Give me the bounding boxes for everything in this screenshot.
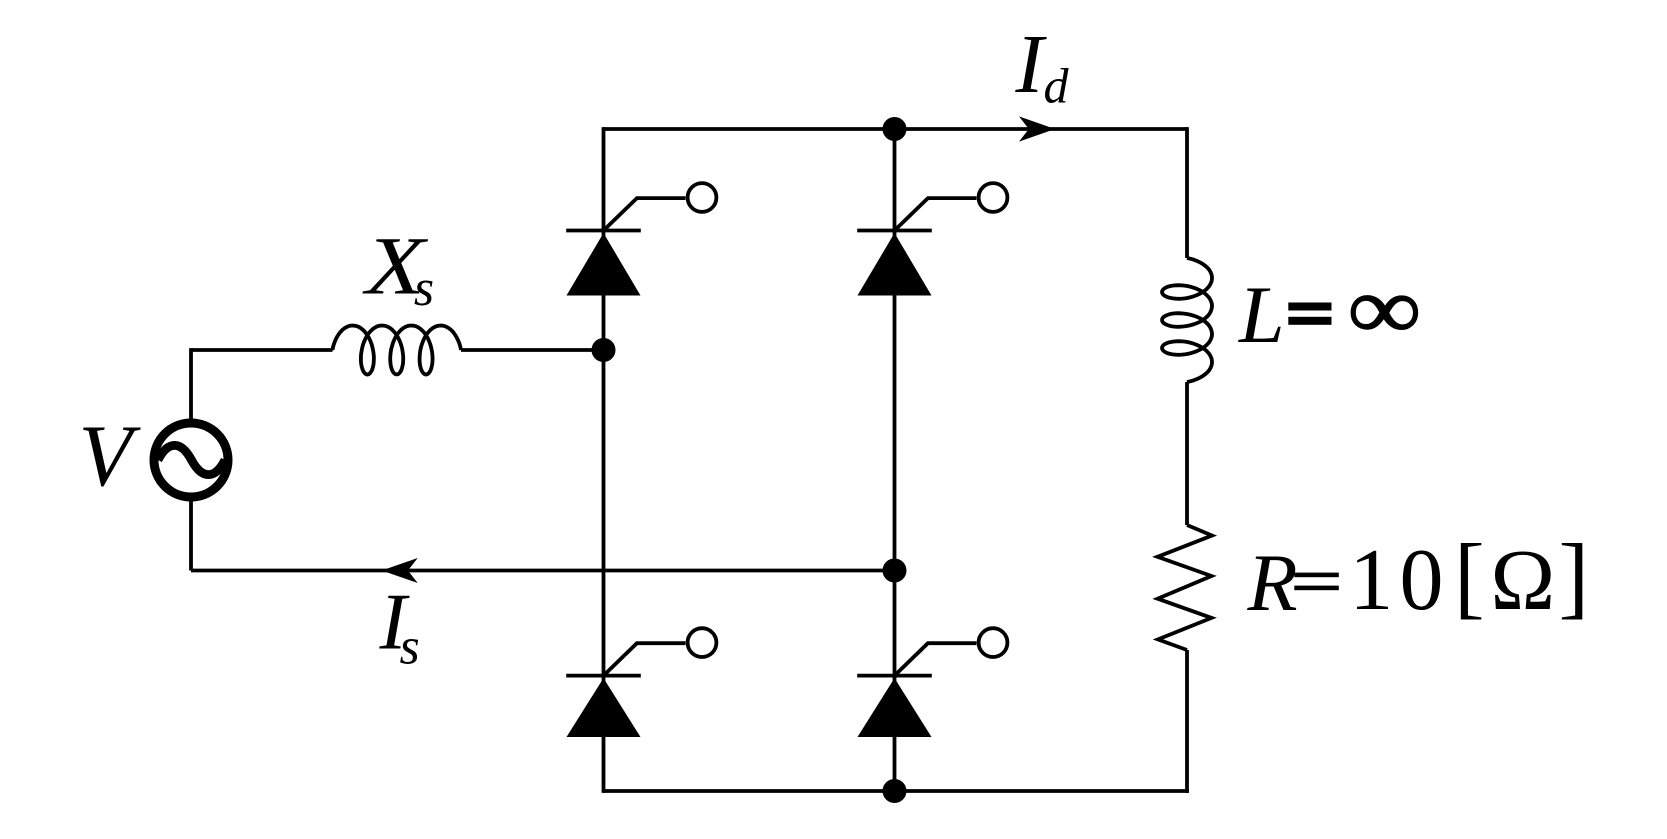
thyristor T3 gate terminal circle	[688, 628, 717, 657]
svg-text:Ω: Ω	[1491, 531, 1556, 628]
svg-text:[: [	[1454, 525, 1485, 627]
thyristor T2 triangle	[858, 233, 932, 296]
svg-text:s: s	[414, 260, 434, 317]
wire AC top (source to Xs)	[191, 348, 333, 352]
wire top rail	[604, 127, 1188, 131]
thyristor T4 gate terminal circle	[979, 628, 1008, 657]
svg-text:L: L	[1238, 269, 1285, 360]
svg-text:∞: ∞	[1347, 259, 1421, 357]
wire Xs to bridge node	[461, 348, 604, 352]
thyristor T4 gate lead	[895, 643, 977, 675]
junction node AC to left leg	[592, 338, 616, 362]
thyristor T1 cathode bar	[566, 229, 641, 233]
wire source lower lead	[189, 501, 193, 571]
equals sign of R label	[1294, 573, 1339, 578]
svg-text:V: V	[79, 408, 142, 505]
junction node bottom rail right leg	[883, 779, 907, 803]
equals sign of L label	[1288, 303, 1331, 311]
thyristor T3 gate lead	[604, 643, 686, 675]
arrow Is on return wire	[382, 558, 418, 583]
wire bottom return Is	[191, 569, 895, 573]
AC source V circle	[154, 423, 228, 497]
svg-text:R: R	[1247, 537, 1298, 628]
thyristor T3 cathode bar	[566, 674, 641, 678]
svg-text:0: 0	[1400, 532, 1444, 629]
junction node top rail right leg	[883, 117, 907, 141]
svg-text:1: 1	[1349, 532, 1393, 629]
infinity symbol	[1347, 259, 1421, 357]
inductor Xs coil	[332, 326, 461, 375]
thyristor T2 cathode bar	[857, 229, 932, 233]
wire source upper lead	[189, 348, 193, 419]
AC source sine wave	[158, 445, 225, 474]
wire right bridge leg	[893, 129, 897, 791]
thyristor T4 cathode bar	[857, 674, 932, 678]
inductor L (load coil)	[1162, 258, 1212, 382]
thyristor T1 triangle	[567, 233, 641, 296]
thyristor T4 triangle	[858, 678, 932, 737]
thyristor T1 gate lead	[604, 198, 686, 230]
junction node return wire right leg	[883, 559, 907, 583]
svg-text:]: ]	[1559, 525, 1590, 627]
arrow Id on top rail	[1019, 116, 1055, 141]
thyristor T1 gate terminal circle	[688, 183, 717, 212]
wire between L and R	[1185, 382, 1189, 525]
svg-text:s: s	[400, 619, 420, 676]
svg-text:d: d	[1044, 58, 1070, 114]
wire right load leg lower	[1185, 650, 1189, 793]
wire left bridge leg	[602, 127, 606, 793]
thyristor T3 triangle	[567, 678, 641, 737]
resistor R zigzag	[1158, 525, 1213, 650]
label Xs	[362, 220, 429, 312]
wire right load leg upper	[1185, 127, 1189, 258]
thyristor T2 gate terminal circle	[979, 183, 1008, 212]
thyristor T2 gate lead	[895, 198, 977, 230]
wire bottom rail	[604, 789, 1189, 793]
